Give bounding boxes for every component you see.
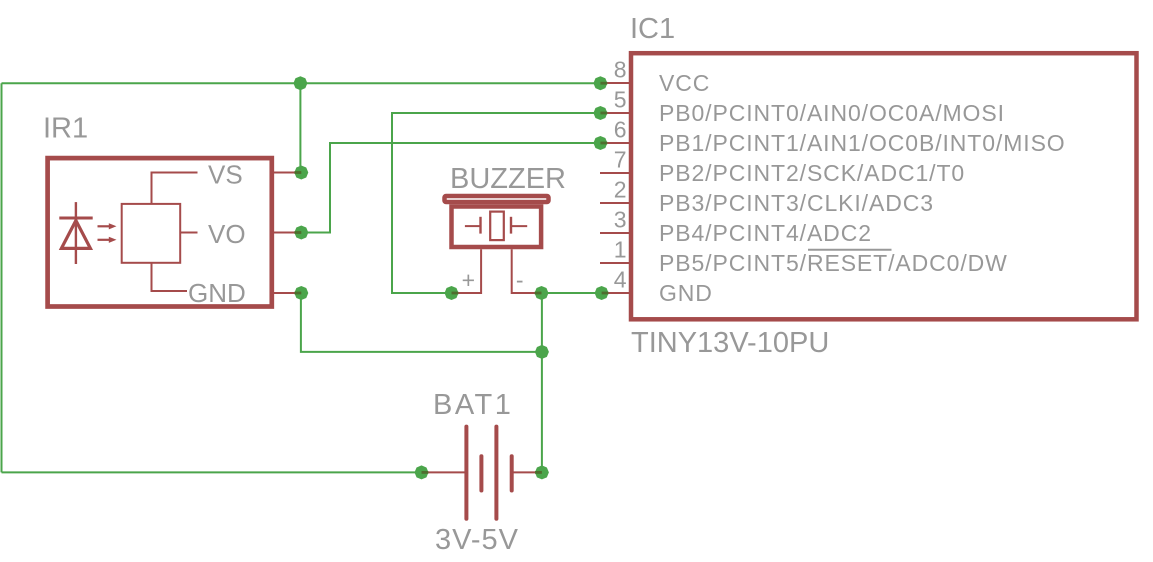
junction: pin 5 <box>593 106 607 120</box>
svg-text:8: 8 <box>614 57 627 83</box>
wire: buzzer minus down to battery plus <box>541 293 543 472</box>
battery long plate 1 <box>464 427 468 519</box>
IC1 pin 4 stub <box>602 292 631 294</box>
svg-text:GND: GND <box>659 280 713 306</box>
svg-text:BUZZER: BUZZER <box>450 163 566 195</box>
battery right stub <box>512 471 542 473</box>
buzzer crystal left plate <box>479 217 481 234</box>
junction: top net / VS drop <box>293 76 307 90</box>
battery short plate 2 <box>510 456 514 490</box>
junction: IR1 GND <box>294 286 308 300</box>
junction: buzzer plus <box>445 286 459 300</box>
buzzer crystal right plate <box>510 217 512 234</box>
IC1 pin 7 stub <box>600 172 631 174</box>
buzzer body <box>452 207 542 248</box>
junction: battery plus <box>535 465 549 479</box>
wire: IC pin 5 to buzzer plus <box>392 113 600 293</box>
junction: pin 6 <box>593 136 607 150</box>
wire: IR1 GND down and right <box>301 293 542 352</box>
IR1 inner square <box>122 204 181 263</box>
IC1 pin 1 stub <box>600 262 631 264</box>
svg-text:-: - <box>516 267 524 293</box>
IC1 pin 5 stub <box>600 112 631 114</box>
battery long plate 2 <box>494 427 498 519</box>
svg-text:3V-5V: 3V-5V <box>435 524 519 556</box>
svg-text:6: 6 <box>614 117 627 143</box>
IC1 pin 8 stub <box>600 82 631 84</box>
buzzer crystal left lead <box>465 225 481 227</box>
junction: buzzer minus <box>535 286 549 300</box>
IC1 pin 6 stub <box>600 142 631 144</box>
RESET overline <box>808 249 892 251</box>
svg-text:PB5/PCINT5/RESET/ADC0/DW: PB5/PCINT5/RESET/ADC0/DW <box>659 250 1008 276</box>
buzzer minus lead <box>512 249 542 293</box>
svg-text:GND: GND <box>188 278 246 308</box>
IC1 outline <box>631 53 1137 319</box>
photodiode cathode bar <box>59 217 92 220</box>
IR1 VO internal link <box>181 232 198 234</box>
IR1 GND internal link <box>152 264 188 292</box>
junction: GND net tee <box>535 345 549 359</box>
svg-text:2: 2 <box>614 177 627 203</box>
svg-text:BAT1: BAT1 <box>433 389 513 421</box>
battery short plate 1 <box>479 456 483 490</box>
svg-text:IC1: IC1 <box>630 13 675 45</box>
buzzer crystal right lead <box>511 225 527 227</box>
svg-text:VS: VS <box>208 160 243 190</box>
junction: pin 8 <box>593 76 607 90</box>
wire: drop from top net to IR1 VS pin <box>299 83 301 172</box>
IR1 outline <box>48 158 272 306</box>
wire: buzzer minus to IC pin 4 <box>542 292 602 294</box>
IR1 VS internal link <box>152 173 198 204</box>
IR1 VS pin stub <box>272 172 301 174</box>
svg-text:4: 4 <box>614 267 627 293</box>
svg-text:TINY13V-10PU: TINY13V-10PU <box>631 327 829 359</box>
svg-text:3: 3 <box>614 207 627 233</box>
svg-text:IR1: IR1 <box>43 113 88 145</box>
IR1 GND pin stub <box>272 292 301 294</box>
photodiode triangle <box>61 221 90 249</box>
photodiode arrow upper <box>98 223 117 229</box>
wire: VCC top net horizontal <box>2 82 601 84</box>
buzzer plus lead <box>452 249 482 293</box>
IR1 VO pin stub <box>272 232 301 234</box>
svg-text:VO: VO <box>208 219 246 249</box>
junction: battery minus <box>415 465 429 479</box>
wire: bottom horizontal to battery <box>2 471 422 473</box>
svg-text:VCC: VCC <box>659 70 710 96</box>
svg-text:7: 7 <box>614 147 627 173</box>
wire: left vertical net <box>1 83 3 472</box>
junction: pin 4 <box>595 286 609 300</box>
svg-text:PB2/PCINT2/SCK/ADC1/T0: PB2/PCINT2/SCK/ADC1/T0 <box>659 160 965 186</box>
svg-text:+: + <box>462 267 475 293</box>
svg-text:PB1/PCINT1/AIN1/OC0B/INT0/MISO: PB1/PCINT1/AIN1/OC0B/INT0/MISO <box>659 130 1066 156</box>
junction: IR1 VS <box>294 166 308 180</box>
wire: IR1 VO to IC pin 6 <box>300 143 600 233</box>
buzzer crystal box <box>490 212 504 241</box>
photodiode stem <box>75 202 77 264</box>
photodiode arrow lower <box>98 237 117 243</box>
svg-text:PB3/PCINT3/CLKI/ADC3: PB3/PCINT3/CLKI/ADC3 <box>659 190 934 216</box>
IC1 pin 2 stub <box>600 202 631 204</box>
buzzer top bar <box>445 196 549 202</box>
svg-text:5: 5 <box>614 87 627 113</box>
svg-text:PB0/PCINT0/AIN0/OC0A/MOSI: PB0/PCINT0/AIN0/OC0A/MOSI <box>659 100 1005 126</box>
svg-text:PB4/PCINT4/ADC2: PB4/PCINT4/ADC2 <box>659 220 872 246</box>
battery left stub <box>422 471 467 473</box>
IC1 pin 3 stub <box>600 232 631 234</box>
junction: IR1 VO <box>294 226 308 240</box>
svg-text:1: 1 <box>614 237 627 263</box>
